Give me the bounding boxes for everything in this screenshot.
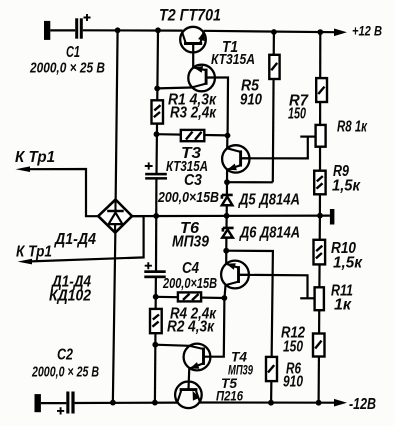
svg-text:200,0×15В: 200,0×15В	[157, 190, 219, 206]
svg-text:1к: 1к	[334, 297, 352, 314]
svg-text:С4: С4	[182, 260, 199, 277]
svg-text:R3 2,4к: R3 2,4к	[170, 105, 217, 122]
svg-text:-12В: -12В	[349, 396, 376, 413]
svg-text:С2: С2	[57, 347, 73, 364]
svg-text:Т2 ГТ701: Т2 ГТ701	[159, 6, 221, 24]
svg-text:К Тр1: К Тр1	[15, 149, 55, 166]
svg-text:1,5к: 1,5к	[332, 178, 361, 195]
svg-text:200,0×15В: 200,0×15В	[162, 276, 217, 292]
svg-text:П216: П216	[216, 388, 243, 404]
svg-text:2000,0 × 25 В: 2000,0 × 25 В	[29, 60, 105, 77]
svg-text:С3: С3	[184, 172, 202, 189]
svg-text:МП39: МП39	[172, 234, 209, 251]
svg-text:910: 910	[240, 92, 262, 109]
svg-text:150: 150	[288, 106, 306, 123]
svg-text:R8 1к: R8 1к	[337, 119, 368, 136]
svg-text:Д6 Д814А: Д6 Д814А	[238, 225, 300, 242]
svg-text:Д1-Д4: Д1-Д4	[53, 231, 96, 248]
svg-text:R2 4,3к: R2 4,3к	[167, 319, 215, 336]
svg-text:2000,0 × 25 В: 2000,0 × 25 В	[31, 364, 99, 381]
svg-text:КТ315А: КТ315А	[211, 51, 255, 68]
svg-text:С1: С1	[66, 44, 80, 61]
svg-text:150: 150	[283, 339, 303, 356]
svg-text:КД102: КД102	[49, 288, 91, 305]
svg-text:910: 910	[283, 374, 303, 391]
svg-text:К Тр1: К Тр1	[16, 244, 52, 261]
svg-text:+12 В: +12 В	[352, 23, 382, 39]
svg-text:Д5 Д814А: Д5 Д814А	[237, 192, 300, 209]
svg-text:1,5к: 1,5к	[333, 255, 363, 272]
